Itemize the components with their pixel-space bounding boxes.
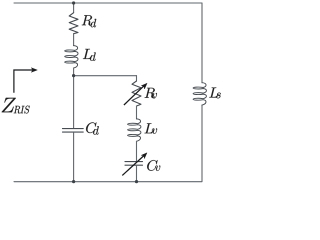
label L_d : d bbox=[90, 53, 96, 61]
label R_d : R bbox=[82, 15, 92, 25]
wire branch 2 top lead bbox=[136, 76, 138, 81]
arrow Z_RIS bbox=[14, 68, 37, 93]
label C_d : d bbox=[93, 126, 99, 134]
junction dot bottom mid bbox=[135, 180, 138, 183]
junction dot top bbox=[72, 1, 75, 4]
wire node A to C_d bbox=[73, 75, 75, 128]
junction dot bottom left bbox=[72, 180, 75, 183]
label C_d : C bbox=[86, 122, 96, 133]
wire R_d top lead bbox=[73, 3, 75, 13]
wire right upper bbox=[201, 3, 203, 83]
arrow of variable capacitor C_v bbox=[122, 153, 147, 176]
resistor R_d bbox=[69, 13, 78, 34]
label Z_RIS : Z bbox=[2, 98, 16, 112]
resistor R_v bbox=[132, 81, 141, 106]
wire L_v to C_v bbox=[136, 141, 138, 161]
label Z_RIS : S bbox=[24, 106, 29, 114]
label Z_RIS : I bbox=[20, 106, 24, 113]
label L_v : v bbox=[152, 128, 157, 133]
label L_s : s bbox=[216, 93, 221, 99]
capacitor C_v bbox=[125, 162, 143, 166]
wire right lower bbox=[201, 105, 203, 181]
wire top bbox=[14, 2, 202, 4]
wire node A to branch 2 bbox=[74, 75, 137, 77]
wire R_v to L_v bbox=[136, 106, 138, 119]
inductor L_d bbox=[65, 46, 78, 68]
label R_v : v bbox=[152, 93, 157, 98]
capacitor C_d bbox=[63, 129, 84, 133]
arrow of variable resistor R_v bbox=[124, 83, 147, 105]
label Z_RIS : R bbox=[14, 106, 20, 114]
label R_v : R bbox=[145, 88, 155, 98]
label C_v : C bbox=[147, 160, 157, 171]
label L_d : L bbox=[83, 49, 92, 59]
wire C_d to bottom bbox=[73, 133, 75, 182]
label R_d : d bbox=[91, 19, 97, 27]
wire C_v to bottom bbox=[136, 165, 138, 181]
label C_v : v bbox=[155, 165, 160, 170]
wire bottom bbox=[14, 181, 202, 183]
inductor L_s bbox=[193, 83, 206, 105]
label L_s : L bbox=[209, 88, 218, 98]
junction dot node A bbox=[72, 74, 75, 77]
label L_v : L bbox=[145, 123, 154, 133]
wire R_d to L_d bbox=[73, 34, 75, 46]
inductor L_v bbox=[128, 119, 141, 141]
wire L_d to node A bbox=[73, 68, 75, 75]
